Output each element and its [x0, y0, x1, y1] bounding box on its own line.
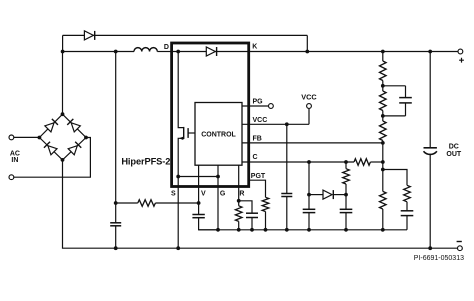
- diode D5 bypass: [84, 31, 94, 40]
- node C6 on bus: [344, 228, 348, 232]
- label CONTROL: [201, 131, 236, 138]
- terminal DC+: [458, 49, 463, 54]
- node VCC cap on bus: [285, 228, 289, 232]
- resistor R8: [380, 91, 387, 111]
- capacitor C9 + plate: [424, 147, 437, 149]
- wire signal bus: [199, 229, 407, 231]
- wire C branch2 lower: [345, 213, 347, 230]
- label pin R: [239, 191, 244, 198]
- inductor L1: [134, 48, 157, 52]
- svg-text:PI-6691-050313: PI-6691-050313: [414, 255, 464, 262]
- wire R to C3: [239, 201, 252, 213]
- resistor R2: [138, 200, 156, 207]
- svg-text:FB: FB: [253, 135, 262, 142]
- label pin C: [253, 154, 258, 161]
- wire output cap column upper: [429, 52, 431, 148]
- capacitor C9 curved plate: [424, 151, 437, 154]
- terminal VCC: [307, 104, 312, 109]
- node VCC tap: [285, 122, 289, 126]
- wire pin G drop: [217, 165, 219, 230]
- wire input-cap column upper: [115, 52, 117, 223]
- node source junction: [176, 175, 180, 179]
- node comp tap: [381, 168, 385, 172]
- label DC OUT: [446, 144, 462, 159]
- node bridge right: [84, 136, 88, 140]
- wire C branch2 upper: [345, 162, 347, 169]
- wire R4 to divider: [370, 161, 382, 163]
- node R junction: [237, 199, 241, 203]
- capacitor C8: [401, 211, 414, 216]
- resistor R4 (C pin): [354, 159, 370, 166]
- svg-text:K: K: [252, 43, 257, 50]
- label AC IN: [10, 151, 20, 165]
- node R2 wire tap: [114, 201, 118, 205]
- node divider top: [381, 50, 385, 54]
- capacitor C3: [246, 213, 258, 217]
- wire comp top lead: [383, 170, 407, 186]
- svg-text:PGT: PGT: [251, 173, 266, 180]
- transistor Q1 gate lead: [188, 132, 195, 134]
- capacitor C5: [303, 209, 316, 212]
- wire pin S drop: [177, 177, 179, 249]
- node S on rail: [176, 246, 180, 250]
- resistor R3 (R pin): [235, 206, 242, 222]
- wire bypass top run: [63, 34, 308, 36]
- wire divider seg3: [382, 111, 384, 122]
- wire divider seg1: [382, 52, 384, 62]
- terminal AC line 1: [9, 135, 14, 140]
- wire comp bottom: [406, 216, 408, 230]
- node R2 to V pin: [197, 201, 201, 205]
- capacitor C4 (VCC): [281, 194, 292, 197]
- transistor Q1 arrow: [179, 137, 183, 140]
- node R5 on bus: [264, 228, 268, 232]
- node output cap top: [428, 50, 432, 54]
- label minus: [457, 241, 462, 242]
- svg-text:PG: PG: [253, 99, 264, 106]
- resistor R7: [380, 61, 387, 81]
- svg-text:VCC: VCC: [253, 117, 268, 124]
- node bridge bottom: [61, 158, 65, 162]
- svg-text:CONTROL: CONTROL: [201, 131, 236, 138]
- resistor R11: [404, 185, 411, 202]
- resistor R9: [380, 121, 387, 141]
- wire pin VCC: [242, 123, 309, 125]
- transistor Q1 source lead: [178, 138, 184, 176]
- svg-text:D: D: [164, 44, 169, 51]
- capacitor C6: [340, 209, 353, 212]
- node C net on divider: [381, 160, 385, 164]
- wire pin PGT: [249, 180, 266, 197]
- transistor Q1 drain lead: [178, 52, 184, 128]
- wire AC bottom to bridge: [14, 138, 91, 178]
- resistor R10: [380, 191, 387, 209]
- transistor Q1 channel: [183, 127, 185, 139]
- terminal AC line 2: [9, 175, 14, 180]
- node C branch1 mid: [307, 193, 311, 197]
- wire comp mid: [406, 202, 408, 211]
- wire source to G-stub: [178, 176, 218, 178]
- node FB junction: [381, 141, 385, 145]
- node input-cap on rail: [114, 246, 118, 250]
- svg-text:DC: DC: [449, 144, 459, 151]
- node divider on bus: [381, 228, 385, 232]
- label pin VCC: [253, 117, 268, 124]
- label pin V: [201, 191, 206, 198]
- bridge diode D4 (bottom-right): [68, 142, 81, 155]
- label pin PGT: [251, 173, 266, 180]
- svg-text:R: R: [239, 191, 244, 198]
- label PI-6691-050313: [414, 255, 464, 262]
- node C tap 1: [307, 160, 311, 164]
- wire pin C: [242, 161, 354, 163]
- bridge rectifier BR1 wires: [39, 114, 86, 160]
- wire AC top to bridge: [14, 136, 40, 138]
- label VCC supply: [301, 93, 317, 102]
- node bridge top: [61, 112, 65, 116]
- node G-stub junction: [216, 175, 220, 179]
- diode D7 clamp: [323, 190, 333, 199]
- node C tap 2: [344, 160, 348, 164]
- bridge diode D2 (right-top): [67, 119, 80, 132]
- node C3 on bus: [250, 228, 254, 232]
- label pin G: [220, 191, 226, 198]
- wire pin PG: [242, 105, 269, 107]
- wire divider seg2: [382, 81, 384, 92]
- transistor Q1 gate bar: [187, 128, 189, 138]
- wire C7 column: [405, 86, 407, 116]
- node A (bridge/D-rail): [61, 50, 65, 54]
- node R3 on bus: [237, 228, 241, 232]
- wire input-cap column lower: [115, 226, 117, 248]
- svg-text:G: G: [220, 191, 226, 198]
- wire VCC cap column lower: [286, 197, 288, 230]
- svg-text:V: V: [201, 191, 206, 198]
- wire R2 leads: [116, 202, 199, 204]
- svg-text:HiperPFS-2: HiperPFS-2: [121, 157, 170, 167]
- node bridge left: [38, 136, 42, 140]
- wire pin R drop: [238, 165, 240, 206]
- wire D7 leads: [309, 194, 346, 196]
- node divider n2: [381, 114, 385, 118]
- wire V cap to bus: [199, 218, 218, 230]
- wire C3 to bus: [251, 218, 253, 230]
- wire C branch1 upper: [308, 162, 310, 209]
- wire divider seg4: [382, 141, 384, 170]
- wire R3 to bus: [238, 221, 240, 229]
- label pin PG: [253, 99, 264, 106]
- wire divider seg6: [382, 209, 384, 230]
- wire pin FB: [242, 142, 383, 144]
- label pin FB: [253, 135, 262, 142]
- node drain tap: [176, 50, 180, 54]
- node divider n1: [381, 84, 385, 88]
- resistor R6: [343, 169, 350, 184]
- wire bypass right drop: [306, 35, 308, 51]
- wire VCC riser: [308, 108, 310, 124]
- svg-text:IN: IN: [11, 157, 18, 164]
- wire C7 top lead: [383, 85, 406, 87]
- node C branch2 mid: [344, 193, 348, 197]
- node C5 on bus: [307, 228, 311, 232]
- wire divider seg5: [382, 170, 384, 192]
- wire bridge+ to D rail: [62, 52, 64, 115]
- svg-text:S: S: [171, 191, 176, 198]
- wire D rail left: [63, 51, 134, 53]
- terminal PG: [269, 104, 274, 109]
- label pin D: [164, 44, 169, 51]
- bridge diode D3 (bottom-left): [44, 142, 57, 155]
- node output cap on rail: [428, 246, 432, 250]
- svg-text:C: C: [253, 154, 258, 161]
- op-amp U1 HiperPFS-2 package: [172, 43, 249, 187]
- label pin S: [171, 191, 176, 198]
- wire pin V drop: [198, 165, 200, 214]
- wire bypass left riser: [62, 35, 64, 51]
- node input-cap top: [114, 50, 118, 54]
- terminal DC-: [458, 246, 463, 251]
- control block U1a: [195, 103, 242, 166]
- diode D6 boost (inside U1): [206, 47, 216, 56]
- wire D rail into IC: [157, 51, 171, 53]
- svg-text:OUT: OUT: [446, 151, 462, 158]
- label plus: [459, 58, 464, 63]
- bridge diode D1 (left-top): [45, 119, 58, 132]
- node G on bus: [216, 228, 220, 232]
- label pin K: [252, 43, 257, 50]
- wire output cap column lower: [429, 154, 431, 248]
- wire R5 to bus: [265, 212, 267, 230]
- wire return rail: [63, 160, 458, 248]
- label HiperPFS-2: [121, 157, 170, 167]
- wire VCC cap column upper: [286, 124, 288, 193]
- wire D-K rail: [172, 51, 459, 53]
- capacitor C7: [399, 98, 412, 103]
- resistor R5 (PGT): [262, 197, 269, 211]
- wire C branch1 lower: [308, 213, 310, 230]
- node bypass-K junction: [305, 50, 309, 54]
- capacitor C2 (V pin): [192, 215, 204, 218]
- capacitor C1: [110, 223, 121, 226]
- wire C7 bottom lead: [383, 115, 406, 117]
- svg-text:VCC: VCC: [301, 93, 317, 102]
- wire C branch2 mid: [345, 184, 347, 209]
